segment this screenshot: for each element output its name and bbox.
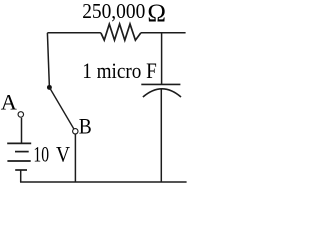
svg-text:A: A	[1, 90, 17, 115]
svg-text:V: V	[56, 142, 70, 167]
svg-text:250,000: 250,000	[82, 0, 145, 23]
svg-text:1 micro F: 1 micro F	[82, 58, 157, 83]
svg-text:10: 10	[33, 142, 49, 167]
svg-text:B: B	[79, 114, 92, 139]
svg-text:Ω: Ω	[147, 0, 166, 27]
